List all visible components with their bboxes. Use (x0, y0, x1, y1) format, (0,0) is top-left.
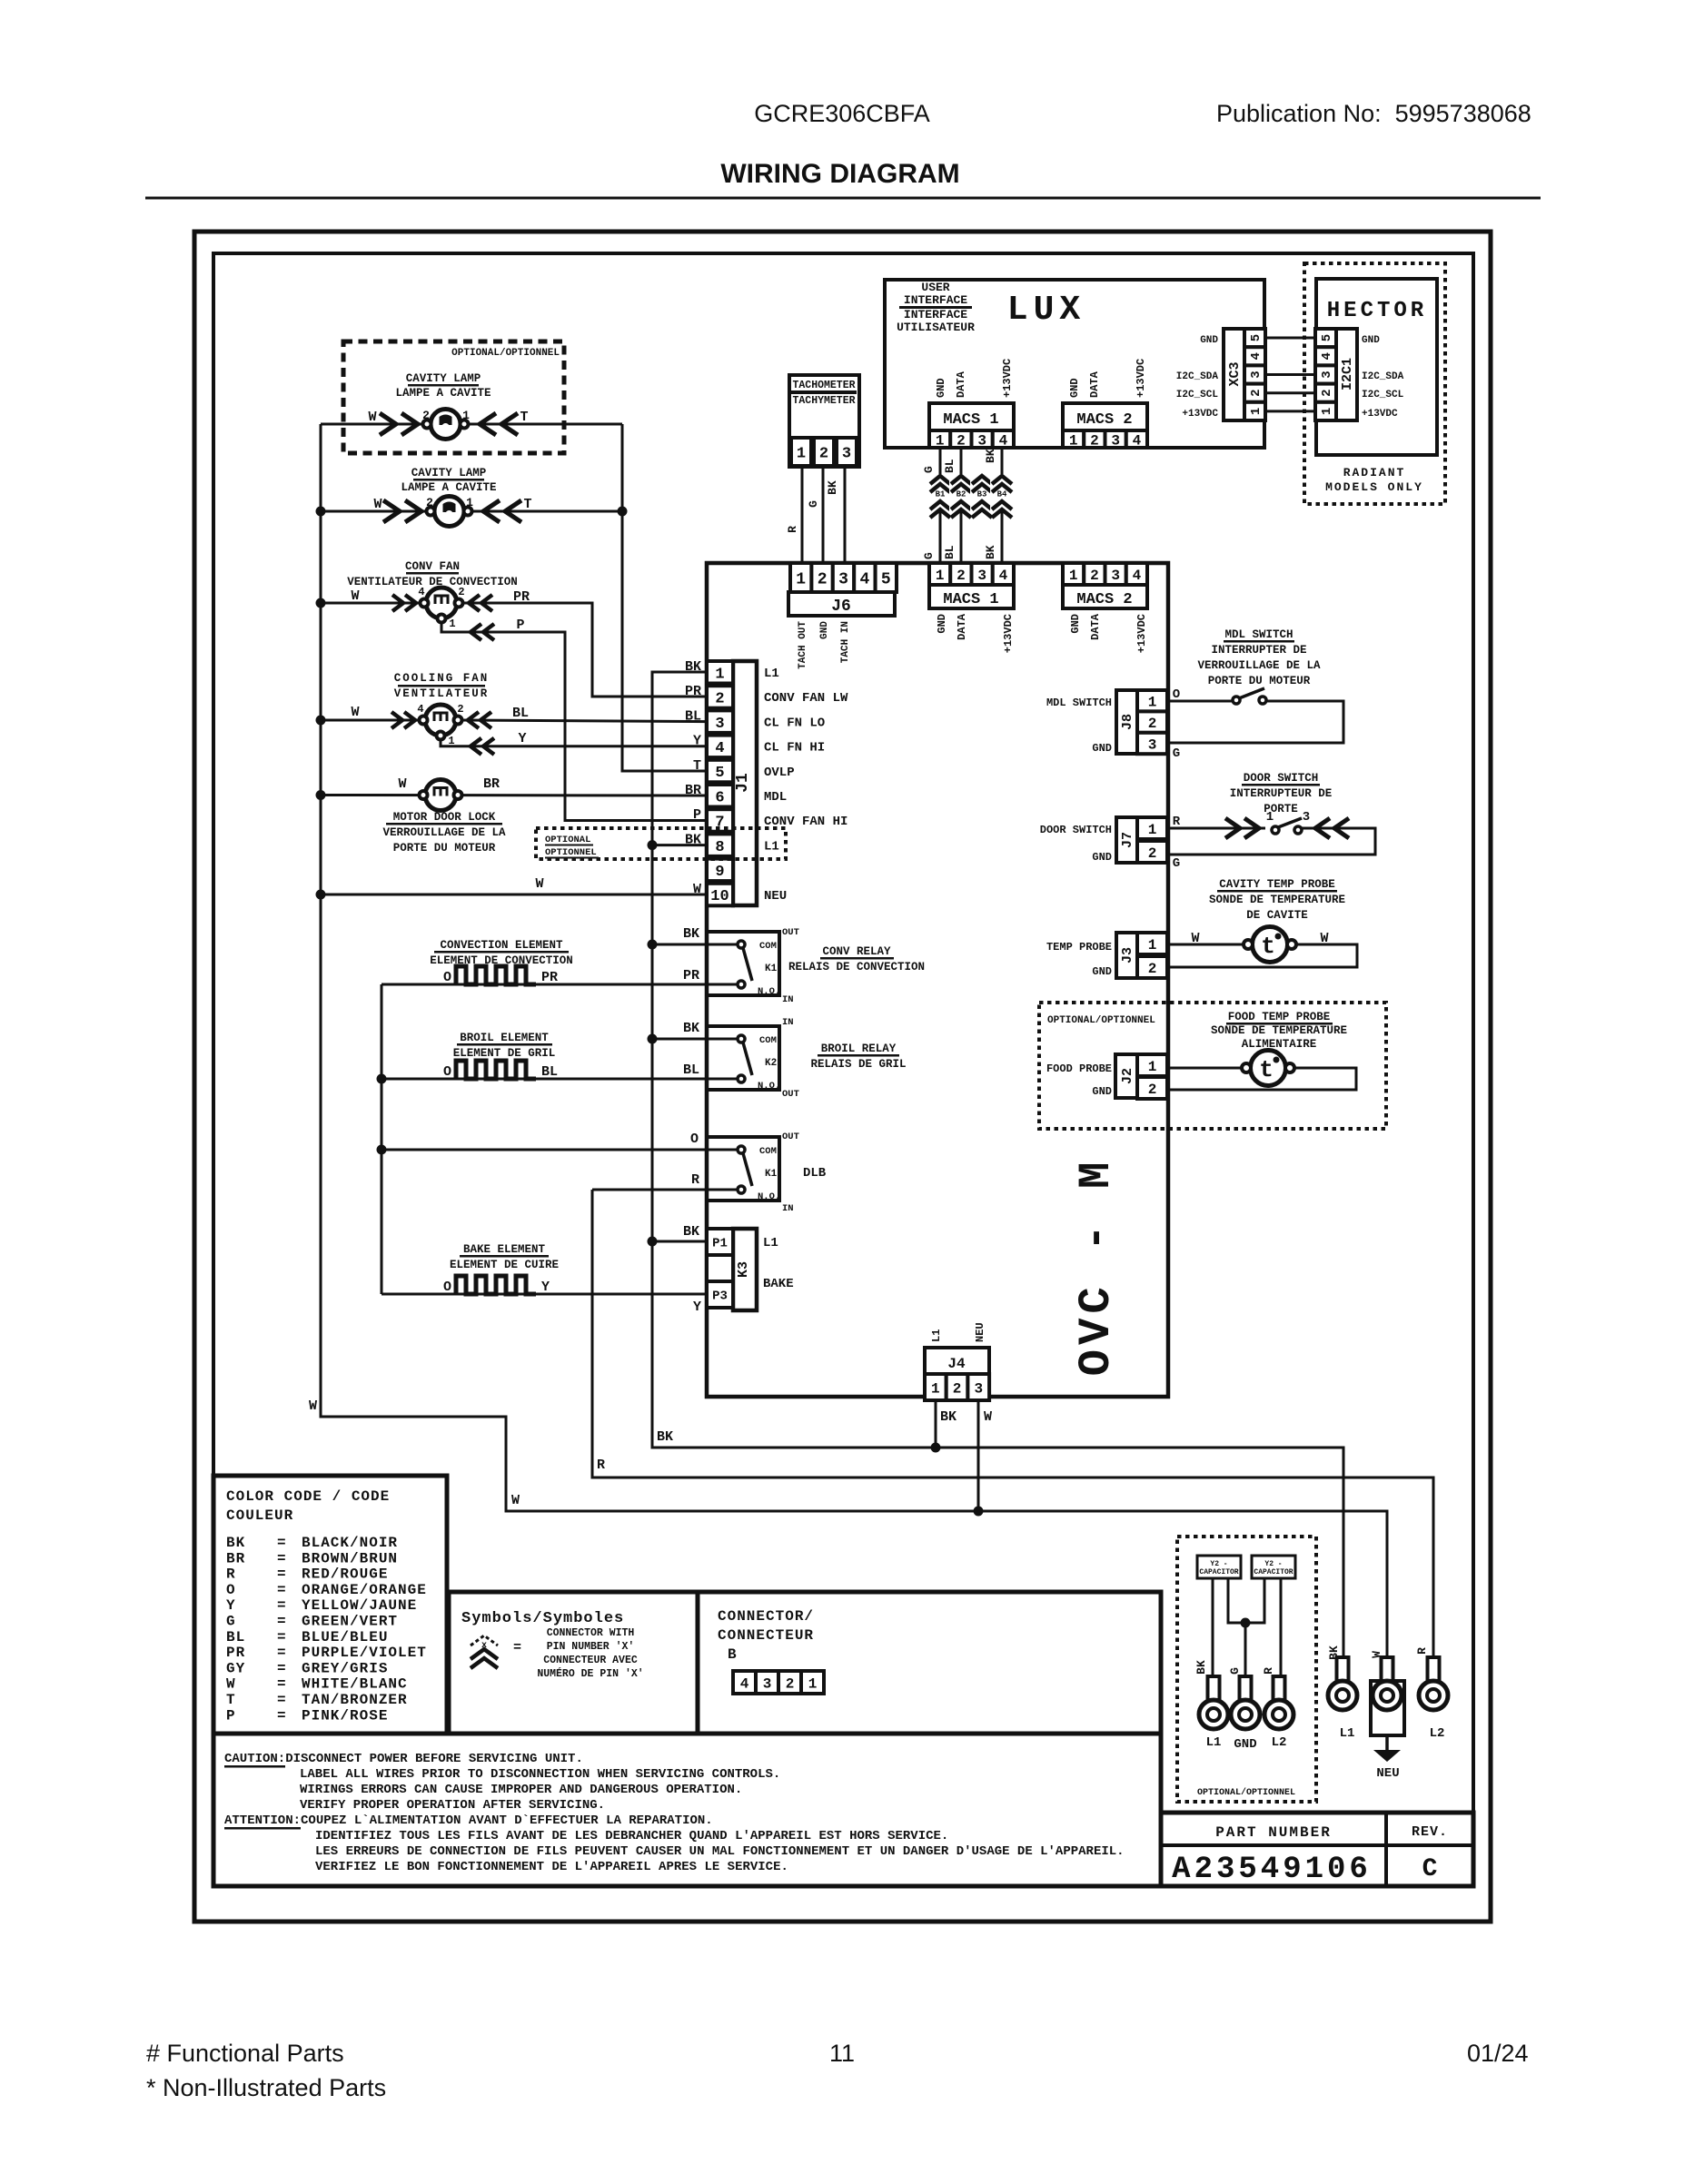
svg-text:GND: GND (1362, 335, 1380, 346)
svg-text:K3: K3 (736, 1261, 751, 1278)
svg-text:+13VDC: +13VDC (1362, 409, 1398, 420)
svg-text:BK: BK (984, 545, 997, 559)
node COLOR CODE legend box (213, 1476, 447, 1734)
svg-text:TAN/BRONZER: TAN/BRONZER (302, 1692, 408, 1708)
svg-text:CONNECTEUR AVEC: CONNECTEUR AVEC (543, 1655, 638, 1666)
svg-text:GY: GY (226, 1660, 245, 1676)
svg-text:L1: L1 (764, 839, 779, 854)
svg-text:2: 2 (786, 1675, 795, 1692)
svg-text:GND: GND (936, 614, 948, 634)
svg-text:4: 4 (1320, 352, 1334, 360)
svg-text:FOOD PROBE: FOOD PROBE (1046, 1062, 1112, 1075)
node junction BK K1 (648, 940, 658, 950)
svg-text:C: C (1422, 1855, 1438, 1883)
svg-text:MDL SWITCH: MDL SWITCH (1224, 628, 1293, 641)
wire cap2 R lead (1280, 1578, 1283, 1678)
svg-text:1: 1 (1320, 408, 1334, 415)
svg-text:R: R (786, 526, 799, 533)
wire XC3-5 to I2C1-5 (GND) (1265, 337, 1315, 340)
svg-text:CAVITY LAMP: CAVITY LAMP (411, 467, 487, 479)
svg-text:CAVITY LAMP: CAVITY LAMP (406, 372, 481, 385)
svg-text:XC3: XC3 (1227, 361, 1243, 386)
svg-text:BK: BK (683, 1021, 699, 1036)
node inline connector B3 (970, 474, 994, 518)
svg-text:NEU: NEU (1376, 1766, 1399, 1781)
wire O to DLB relay (382, 1149, 738, 1151)
svg-text:=: = (277, 1614, 286, 1630)
svg-text:O: O (443, 1064, 451, 1080)
wire MDL W/BR row (321, 794, 707, 797)
svg-text:I2C_SCL: I2C_SCL (1176, 390, 1219, 400)
motor CONV FAN symbol (351, 586, 530, 640)
svg-text:CONV FAN LW: CONV FAN LW (764, 691, 848, 706)
svg-text:OPTIONNEL: OPTIONNEL (545, 847, 597, 858)
svg-text:OPTIONAL/OPTIONNEL: OPTIONAL/OPTIONNEL (1197, 1787, 1295, 1798)
wire bake element to K3-P3 (382, 1293, 707, 1296)
svg-text:GND: GND (1092, 1085, 1112, 1098)
svg-text:BR: BR (226, 1550, 245, 1566)
svg-text:W: W (368, 410, 376, 425)
svg-text:NEU: NEU (764, 889, 787, 904)
svg-text:3: 3 (1303, 810, 1310, 825)
svg-text:3: 3 (1148, 736, 1157, 753)
svg-text:4: 4 (417, 703, 423, 716)
svg-text:G: G (1173, 746, 1180, 761)
svg-text:R: R (1262, 1667, 1275, 1675)
svg-text:BL: BL (512, 706, 529, 721)
svg-text:OUT: OUT (782, 927, 799, 938)
wire element chain vertical (381, 984, 383, 1294)
svg-text:GREEN/VERT: GREEN/VERT (302, 1614, 398, 1630)
wire T bus to J1-5 (622, 424, 707, 771)
svg-text:OVLP: OVLP (764, 766, 795, 780)
svg-text:COULEUR: COULEUR (226, 1507, 293, 1524)
svg-text:5: 5 (1320, 334, 1334, 341)
wire cap1 BK lead (1212, 1578, 1214, 1678)
svg-text:I2C_SCL: I2C_SCL (1362, 390, 1404, 400)
probe food temp probe (1168, 1051, 1356, 1091)
svg-text:J3: J3 (1120, 947, 1135, 964)
wire tach pin2 G (822, 466, 825, 565)
svg-text:BL: BL (226, 1629, 245, 1645)
svg-text:COM: COM (759, 1035, 777, 1046)
svg-text:J8: J8 (1120, 714, 1135, 730)
node junction BK pin8 (648, 840, 658, 850)
node junction BK K3 (648, 1237, 658, 1247)
svg-text:4: 4 (999, 568, 1008, 584)
svg-text:MODELS ONLY: MODELS ONLY (1325, 480, 1423, 494)
svg-text:VENTILATEUR DE CONVECTION: VENTILATEUR DE CONVECTION (347, 576, 518, 588)
svg-text:TACH IN: TACH IN (840, 621, 851, 663)
svg-text:2: 2 (953, 1380, 962, 1397)
svg-text:1: 1 (1249, 408, 1264, 415)
module tachometer (789, 375, 859, 467)
wire lamp1 row (321, 423, 622, 426)
svg-text:2: 2 (457, 703, 463, 716)
svg-text:CAVITY TEMP PROBE: CAVITY TEMP PROBE (1219, 878, 1335, 891)
wire G MACS1 pin1 to board (939, 448, 942, 565)
svg-text:1: 1 (449, 618, 455, 630)
svg-text:DATA: DATA (955, 371, 967, 398)
wire BK to K3-P1 (652, 1240, 707, 1243)
svg-text:BK: BK (826, 480, 839, 495)
svg-text:COLOR CODE / CODE: COLOR CODE / CODE (226, 1488, 390, 1505)
svg-text:1: 1 (808, 1675, 818, 1692)
svg-text:BLUE/BLEU: BLUE/BLEU (302, 1629, 388, 1645)
svg-text:=: = (277, 1660, 286, 1676)
svg-text:2: 2 (458, 586, 464, 598)
svg-text:CONVECTION ELEMENT: CONVECTION ELEMENT (440, 939, 563, 952)
svg-text:1: 1 (797, 446, 806, 463)
wire cooling fan W (321, 719, 423, 722)
svg-text:PORTE DU MOTEUR: PORTE DU MOTEUR (1208, 675, 1311, 687)
svg-text:LABEL ALL WIRES PRIOR TO DISCO: LABEL ALL WIRES PRIOR TO DISCONNECTION W… (300, 1767, 780, 1782)
connector J4 (925, 1322, 989, 1400)
svg-text:INTERFACE: INTERFACE (904, 308, 967, 321)
svg-text:Publication No: 5995738068: Publication No: 5995738068 (1216, 100, 1531, 127)
svg-text:1: 1 (796, 570, 806, 588)
svg-text:G: G (922, 466, 936, 473)
capacitor Y2 no.1 (1197, 1556, 1241, 1578)
wire W to J1-10 (321, 894, 707, 896)
svg-text:+13VDC: +13VDC (1001, 359, 1014, 398)
svg-text:SONDE DE TEMPERATURE: SONDE DE TEMPERATURE (1209, 894, 1345, 906)
svg-text:PR: PR (226, 1645, 245, 1661)
svg-text:LAMPE A CAVITE: LAMPE A CAVITE (401, 481, 496, 494)
svg-text:=: = (277, 1550, 286, 1566)
connector J8 (1046, 690, 1167, 755)
svg-text:HECTOR: HECTOR (1327, 299, 1427, 323)
svg-text:I2C1: I2C1 (1340, 358, 1355, 390)
node inline connector B1 (928, 474, 952, 518)
ground NEU (1373, 1735, 1401, 1781)
svg-text:1: 1 (1069, 568, 1078, 584)
node junction cooling fan (316, 716, 326, 726)
svg-text:IN: IN (782, 1017, 794, 1028)
resistor broil element (443, 1061, 558, 1080)
node DOOR SWITCH title (1230, 772, 1333, 815)
svg-text:4: 4 (740, 1675, 749, 1692)
node optional lamp dashed outline (343, 341, 564, 453)
svg-text:DLB: DLB (803, 1166, 827, 1181)
svg-text:1: 1 (462, 409, 470, 422)
wire BK to J1-8 (652, 844, 707, 846)
wire tach pin1 R (801, 466, 804, 565)
svg-text:L2: L2 (1272, 1735, 1287, 1750)
svg-text:PIN NUMBER 'X': PIN NUMBER 'X' (547, 1641, 635, 1653)
connector J6 (788, 563, 897, 669)
svg-text:1: 1 (466, 496, 473, 509)
svg-text:WIRING DIAGRAM: WIRING DIAGRAM (720, 159, 959, 189)
svg-text:OPTIONAL/OPTIONNEL: OPTIONAL/OPTIONNEL (1047, 1015, 1155, 1026)
svg-text:B4: B4 (997, 490, 1007, 499)
svg-text:OUT: OUT (782, 1089, 799, 1100)
svg-text:ELEMENT DE GRIL: ELEMENT DE GRIL (453, 1047, 556, 1060)
svg-text:BR: BR (483, 776, 500, 792)
svg-text:Y: Y (541, 1280, 550, 1295)
wire conv fan W (321, 602, 424, 605)
svg-text:N.O.: N.O. (758, 986, 780, 997)
svg-text:1: 1 (1148, 694, 1157, 710)
svg-text:9: 9 (715, 864, 724, 881)
svg-text:J7: J7 (1120, 832, 1135, 848)
svg-text:P1: P1 (712, 1237, 728, 1251)
svg-text:=: = (277, 1582, 286, 1598)
svg-text:# Functional Parts: # Functional Parts (146, 2040, 344, 2067)
svg-text:GND: GND (1068, 378, 1081, 398)
node terminal GND (optional) (1231, 1676, 1260, 1752)
svg-text:BK: BK (1194, 1660, 1208, 1675)
svg-text:2: 2 (1148, 845, 1157, 862)
node MDL SWITCH title (1197, 628, 1321, 687)
wire conv fan PR to J1-2 (459, 603, 707, 697)
svg-text:=: = (513, 1640, 521, 1655)
svg-text:4: 4 (859, 570, 869, 588)
svg-text:DE CAVITE: DE CAVITE (1246, 909, 1308, 922)
node terminal L2 (R) (1415, 1647, 1448, 1741)
svg-text:3: 3 (763, 1675, 772, 1692)
node junction MDL (316, 790, 326, 800)
svg-text:MACS 2: MACS 2 (1076, 411, 1132, 429)
svg-text:BK: BK (683, 1224, 699, 1240)
svg-text:=: = (277, 1597, 286, 1614)
svg-text:P3: P3 (712, 1290, 728, 1304)
svg-text:RELAIS DE GRIL: RELAIS DE GRIL (810, 1058, 906, 1071)
svg-text:YELLOW/JAUNE: YELLOW/JAUNE (302, 1597, 417, 1614)
svg-text:BROWN/BRUN: BROWN/BRUN (302, 1550, 398, 1566)
svg-text:CONNECTOR WITH: CONNECTOR WITH (547, 1627, 635, 1639)
svg-text:REV.: REV. (1412, 1824, 1448, 1840)
svg-text:VERIFIEZ LE BON FONCTIONNEMENT: VERIFIEZ LE BON FONCTIONNEMENT DE L'APPA… (315, 1860, 788, 1874)
svg-text:4: 4 (1133, 432, 1142, 449)
svg-text:=: = (277, 1645, 286, 1661)
svg-text:MOTOR DOOR LOCK: MOTOR DOOR LOCK (393, 811, 496, 824)
wire tach pin3 BK (844, 466, 847, 565)
svg-text:4: 4 (999, 432, 1008, 449)
wire convection element to K1 (381, 984, 383, 988)
svg-text:ORANGE/ORANGE: ORANGE/ORANGE (302, 1582, 427, 1598)
wire BK to K1 COM (652, 944, 738, 946)
svg-text:2: 2 (1148, 961, 1157, 977)
svg-text:W: W (535, 876, 543, 892)
svg-text:COM: COM (759, 941, 777, 952)
svg-text:W: W (351, 588, 359, 604)
svg-text:4: 4 (715, 740, 724, 757)
svg-text:PURPLE/VIOLET: PURPLE/VIOLET (302, 1645, 427, 1661)
svg-text:IDENTIFIEZ TOUS LES FILS AVANT: IDENTIFIEZ TOUS LES FILS AVANT DE LES DE… (315, 1829, 948, 1843)
svg-text:SONDE DE TEMPERATURE: SONDE DE TEMPERATURE (1211, 1024, 1347, 1037)
svg-text:INTERRUPTEUR DE: INTERRUPTEUR DE (1230, 787, 1333, 800)
svg-text:GND: GND (1200, 335, 1218, 346)
svg-text:3: 3 (977, 432, 986, 449)
lamp cavity lamp 2 labels (401, 467, 496, 494)
connector I2C1 (1315, 329, 1404, 420)
svg-text:GREY/GRIS: GREY/GRIS (302, 1660, 388, 1676)
probe cavity temp probe (1168, 927, 1357, 968)
relay K1 DLB (690, 1132, 827, 1214)
svg-text:Y2 -: Y2 - (1210, 1560, 1227, 1568)
svg-text:I2C_SDA: I2C_SDA (1362, 371, 1404, 382)
connector K3 (683, 1224, 794, 1315)
svg-text:LAMPE A CAVITE: LAMPE A CAVITE (395, 387, 491, 400)
svg-text:J2: J2 (1120, 1068, 1135, 1084)
node OPTIONAL label (545, 835, 599, 859)
svg-text:Y2 -: Y2 - (1264, 1560, 1282, 1568)
svg-text:CAPACITOR: CAPACITOR (1199, 1568, 1238, 1576)
svg-text:PORTE DU MOTEUR: PORTE DU MOTEUR (393, 842, 496, 855)
svg-text:VERIFY PROPER OPERATION AFTER: VERIFY PROPER OPERATION AFTER SERVICING. (300, 1798, 605, 1813)
svg-text:B1: B1 (936, 490, 946, 499)
module HECTOR (1316, 279, 1437, 455)
lamp cavity lamp 1 symbol (368, 409, 528, 440)
svg-text:K1: K1 (765, 964, 778, 974)
svg-text:10: 10 (710, 888, 729, 905)
svg-text:TACH OUT: TACH OUT (798, 621, 808, 669)
svg-text:CONNECTOR/: CONNECTOR/ (718, 1608, 814, 1625)
svg-text:3: 3 (715, 716, 724, 733)
svg-text:L1: L1 (1340, 1726, 1355, 1741)
svg-text:3: 3 (1249, 371, 1264, 378)
svg-text:T: T (226, 1692, 236, 1708)
node terminal NEU (W) (1370, 1651, 1404, 1735)
svg-text:O: O (226, 1582, 236, 1598)
svg-text:G: G (922, 552, 936, 559)
svg-text:MDL SWITCH: MDL SWITCH (1046, 697, 1112, 709)
svg-text:1: 1 (1148, 1059, 1157, 1075)
svg-text:O: O (443, 1280, 451, 1295)
wire R from DLB N.O. (592, 1189, 738, 1191)
node optional J1-8 dotted outline (536, 828, 786, 859)
svg-text:4: 4 (1133, 568, 1142, 584)
svg-text:PR: PR (513, 589, 530, 605)
node junction W pin10 (316, 890, 326, 900)
svg-text:1: 1 (1266, 810, 1274, 825)
svg-text:=: = (277, 1676, 286, 1693)
switch MDL switch (1168, 687, 1343, 761)
svg-text:Y: Y (518, 731, 526, 746)
node optional capacitor dotted outline (1177, 1537, 1316, 1802)
wire XC3-3 to I2C1-3 (I2C_SDA) (1265, 373, 1315, 376)
node terminal L2 (optional) (1264, 1676, 1293, 1750)
svg-text:BROIL ELEMENT: BROIL ELEMENT (460, 1032, 549, 1044)
svg-text:BK: BK (657, 1429, 673, 1445)
svg-text:INTERFACE: INTERFACE (904, 293, 967, 307)
node FOOD TEMP PROBE title (1211, 1011, 1347, 1051)
svg-text:1: 1 (1069, 432, 1078, 449)
svg-text:J6: J6 (831, 598, 851, 616)
svg-text:2: 2 (818, 570, 828, 588)
svg-text:BAKE: BAKE (763, 1277, 794, 1291)
node junction broil left (377, 1074, 387, 1084)
svg-text:P: P (226, 1707, 236, 1724)
svg-text:BK: BK (984, 449, 997, 463)
wire R bus to terminal (592, 1190, 1433, 1671)
wire J4-3 W (977, 1400, 980, 1511)
svg-text:O: O (690, 1132, 699, 1147)
node BROIL ELEMENT title (453, 1032, 556, 1060)
wire broil element to K2 (382, 1078, 738, 1081)
svg-text:ALIMENTAIRE: ALIMENTAIRE (1242, 1038, 1317, 1051)
svg-text:2: 2 (956, 432, 966, 449)
svg-text:B: B (728, 1646, 737, 1663)
node junction O wire (377, 1145, 387, 1155)
node part number table (1161, 1813, 1473, 1887)
svg-text:2: 2 (1090, 432, 1099, 449)
svg-text:3: 3 (1111, 568, 1120, 584)
svg-text:OUT: OUT (782, 1132, 799, 1142)
wire cooling fan BL to J1-3 (458, 720, 707, 722)
svg-text:W: W (1320, 931, 1328, 946)
svg-text:2: 2 (819, 446, 828, 463)
connector J2 (1046, 1054, 1167, 1099)
svg-text:CONV FAN: CONV FAN (405, 560, 460, 573)
wire BL MACS1 pin2 to board (960, 448, 963, 565)
connector MACS 1 (LUX side) (929, 359, 1014, 449)
svg-text:ATTENTION:COUPEZ L`ALIMENTATIO: ATTENTION:COUPEZ L`ALIMENTATION AVANT D`… (224, 1813, 713, 1828)
svg-text:11: 11 (829, 2040, 855, 2067)
svg-text:NUMÉRO DE PIN 'X': NUMÉRO DE PIN 'X' (537, 1667, 643, 1680)
svg-text:W: W (309, 1398, 317, 1414)
svg-text:=: = (277, 1692, 286, 1708)
svg-text:RELAIS DE CONVECTION: RELAIS DE CONVECTION (788, 961, 925, 973)
wire BK to K2 COM (652, 1038, 738, 1041)
node terminal L1 (optional) (1199, 1676, 1228, 1750)
connector XC3 (1176, 329, 1265, 420)
svg-text:INTERRUPTER DE: INTERRUPTER DE (1211, 644, 1306, 657)
svg-text:R: R (226, 1566, 236, 1583)
connector MACS 2 (LUX side) (1063, 359, 1147, 449)
svg-text:WHITE/BLANC: WHITE/BLANC (302, 1676, 408, 1693)
svg-text:BK: BK (683, 926, 699, 942)
svg-text:GCRE306CBFA: GCRE306CBFA (754, 100, 930, 127)
svg-text:BK: BK (940, 1409, 956, 1425)
svg-text:1: 1 (1148, 937, 1157, 954)
node CAVITY TEMP PROBE title (1209, 878, 1345, 922)
svg-text:t: t (1261, 933, 1275, 960)
svg-text:OPTIONAL: OPTIONAL (545, 835, 590, 845)
wire cap leads to GND (1228, 1578, 1264, 1623)
svg-text:3: 3 (977, 568, 986, 584)
svg-text:5: 5 (1249, 334, 1264, 341)
resistor convection element (443, 966, 558, 985)
node junction cap GND (1241, 1618, 1251, 1628)
svg-text:=: = (277, 1629, 286, 1645)
svg-text:5: 5 (715, 765, 724, 782)
node BAKE ELEMENT title (450, 1243, 559, 1271)
wire XC3-1 to I2C1-1 (+13VDC) (1265, 410, 1315, 412)
svg-text:3: 3 (1320, 371, 1334, 378)
svg-text:CL FN HI: CL FN HI (764, 741, 825, 756)
relay K2 broil relay (683, 1017, 799, 1100)
svg-text:NEU: NEU (974, 1322, 986, 1342)
node optional food probe dotted outline (1039, 1003, 1386, 1129)
node junction lamp2 right (618, 507, 628, 517)
wire BK MACS1 pin4 to board (1001, 448, 1004, 565)
svg-text:TEMP PROBE: TEMP PROBE (1046, 941, 1112, 954)
svg-text:B2: B2 (956, 490, 966, 499)
svg-text:3: 3 (1111, 432, 1120, 449)
node CONVECTION ELEMENT title (430, 939, 573, 967)
svg-text:4: 4 (1249, 352, 1264, 360)
svg-text:+13VDC: +13VDC (1182, 409, 1218, 420)
svg-text:VERROUILLAGE DE LA: VERROUILLAGE DE LA (382, 826, 506, 839)
svg-text:TACHOMETER: TACHOMETER (792, 380, 855, 391)
svg-text:1: 1 (448, 735, 454, 747)
svg-text:1: 1 (936, 432, 945, 449)
svg-text:1: 1 (936, 568, 945, 584)
svg-text:LES ERREURS DE CONNECTION DE F: LES ERREURS DE CONNECTION DE FILS PEUVEN… (315, 1844, 1125, 1859)
svg-text:=: = (277, 1566, 286, 1583)
